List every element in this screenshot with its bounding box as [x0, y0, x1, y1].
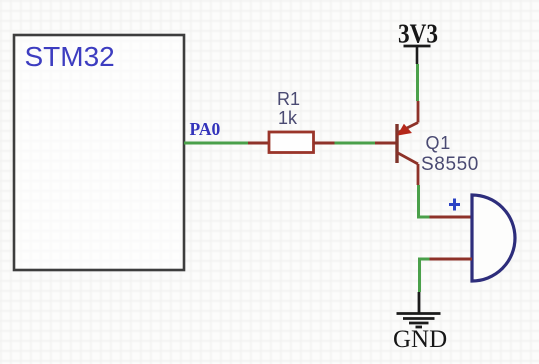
- power stem (black): [416, 46, 419, 64]
- power port 3V3: [398, 19, 438, 65]
- wire GND stem (black): [418, 292, 421, 313]
- svg-text:PA0: PA0: [190, 119, 221, 139]
- pin buzzer + (red): [430, 216, 473, 219]
- svg-text:1k: 1k: [278, 108, 298, 128]
- svg-text:Q1: Q1: [426, 133, 452, 153]
- svg-text:R1: R1: [277, 89, 300, 109]
- wire R1 to Q1 base (green): [335, 142, 376, 145]
- pin buzzer - (red): [430, 258, 473, 261]
- svg-text:GND: GND: [393, 326, 447, 353]
- wire 3V3 to Q1 emitter (green): [416, 64, 419, 101]
- svg-text:S8550: S8550: [421, 154, 479, 175]
- collector diagonal: [397, 153, 418, 165]
- PNP arrow: [398, 125, 411, 135]
- wire buzzer to GND (green): [420, 259, 430, 292]
- ground symbol: [397, 314, 441, 328]
- svg-text:3V3: 3V3: [398, 19, 438, 49]
- svg-text:STM32: STM32: [25, 41, 115, 72]
- collector pin vertical (red): [417, 164, 420, 185]
- emitter pin vertical (red): [417, 101, 420, 123]
- emitter diagonal: [397, 123, 418, 134]
- IC block STM32: [14, 35, 184, 270]
- resistor R1: [269, 132, 314, 153]
- power bar: [404, 45, 431, 48]
- pin R1.2 (red): [314, 142, 335, 145]
- transistor Q1 body: [397, 101, 418, 185]
- plus sign: [449, 199, 460, 211]
- base bar: [395, 124, 398, 163]
- buzzer body: [472, 195, 515, 281]
- pin Q1 base (red): [375, 142, 396, 145]
- pin R1.1 (red): [248, 142, 269, 145]
- wire Q1 collector down (green): [419, 185, 430, 217]
- wire PA0 to R1 (green): [184, 142, 248, 145]
